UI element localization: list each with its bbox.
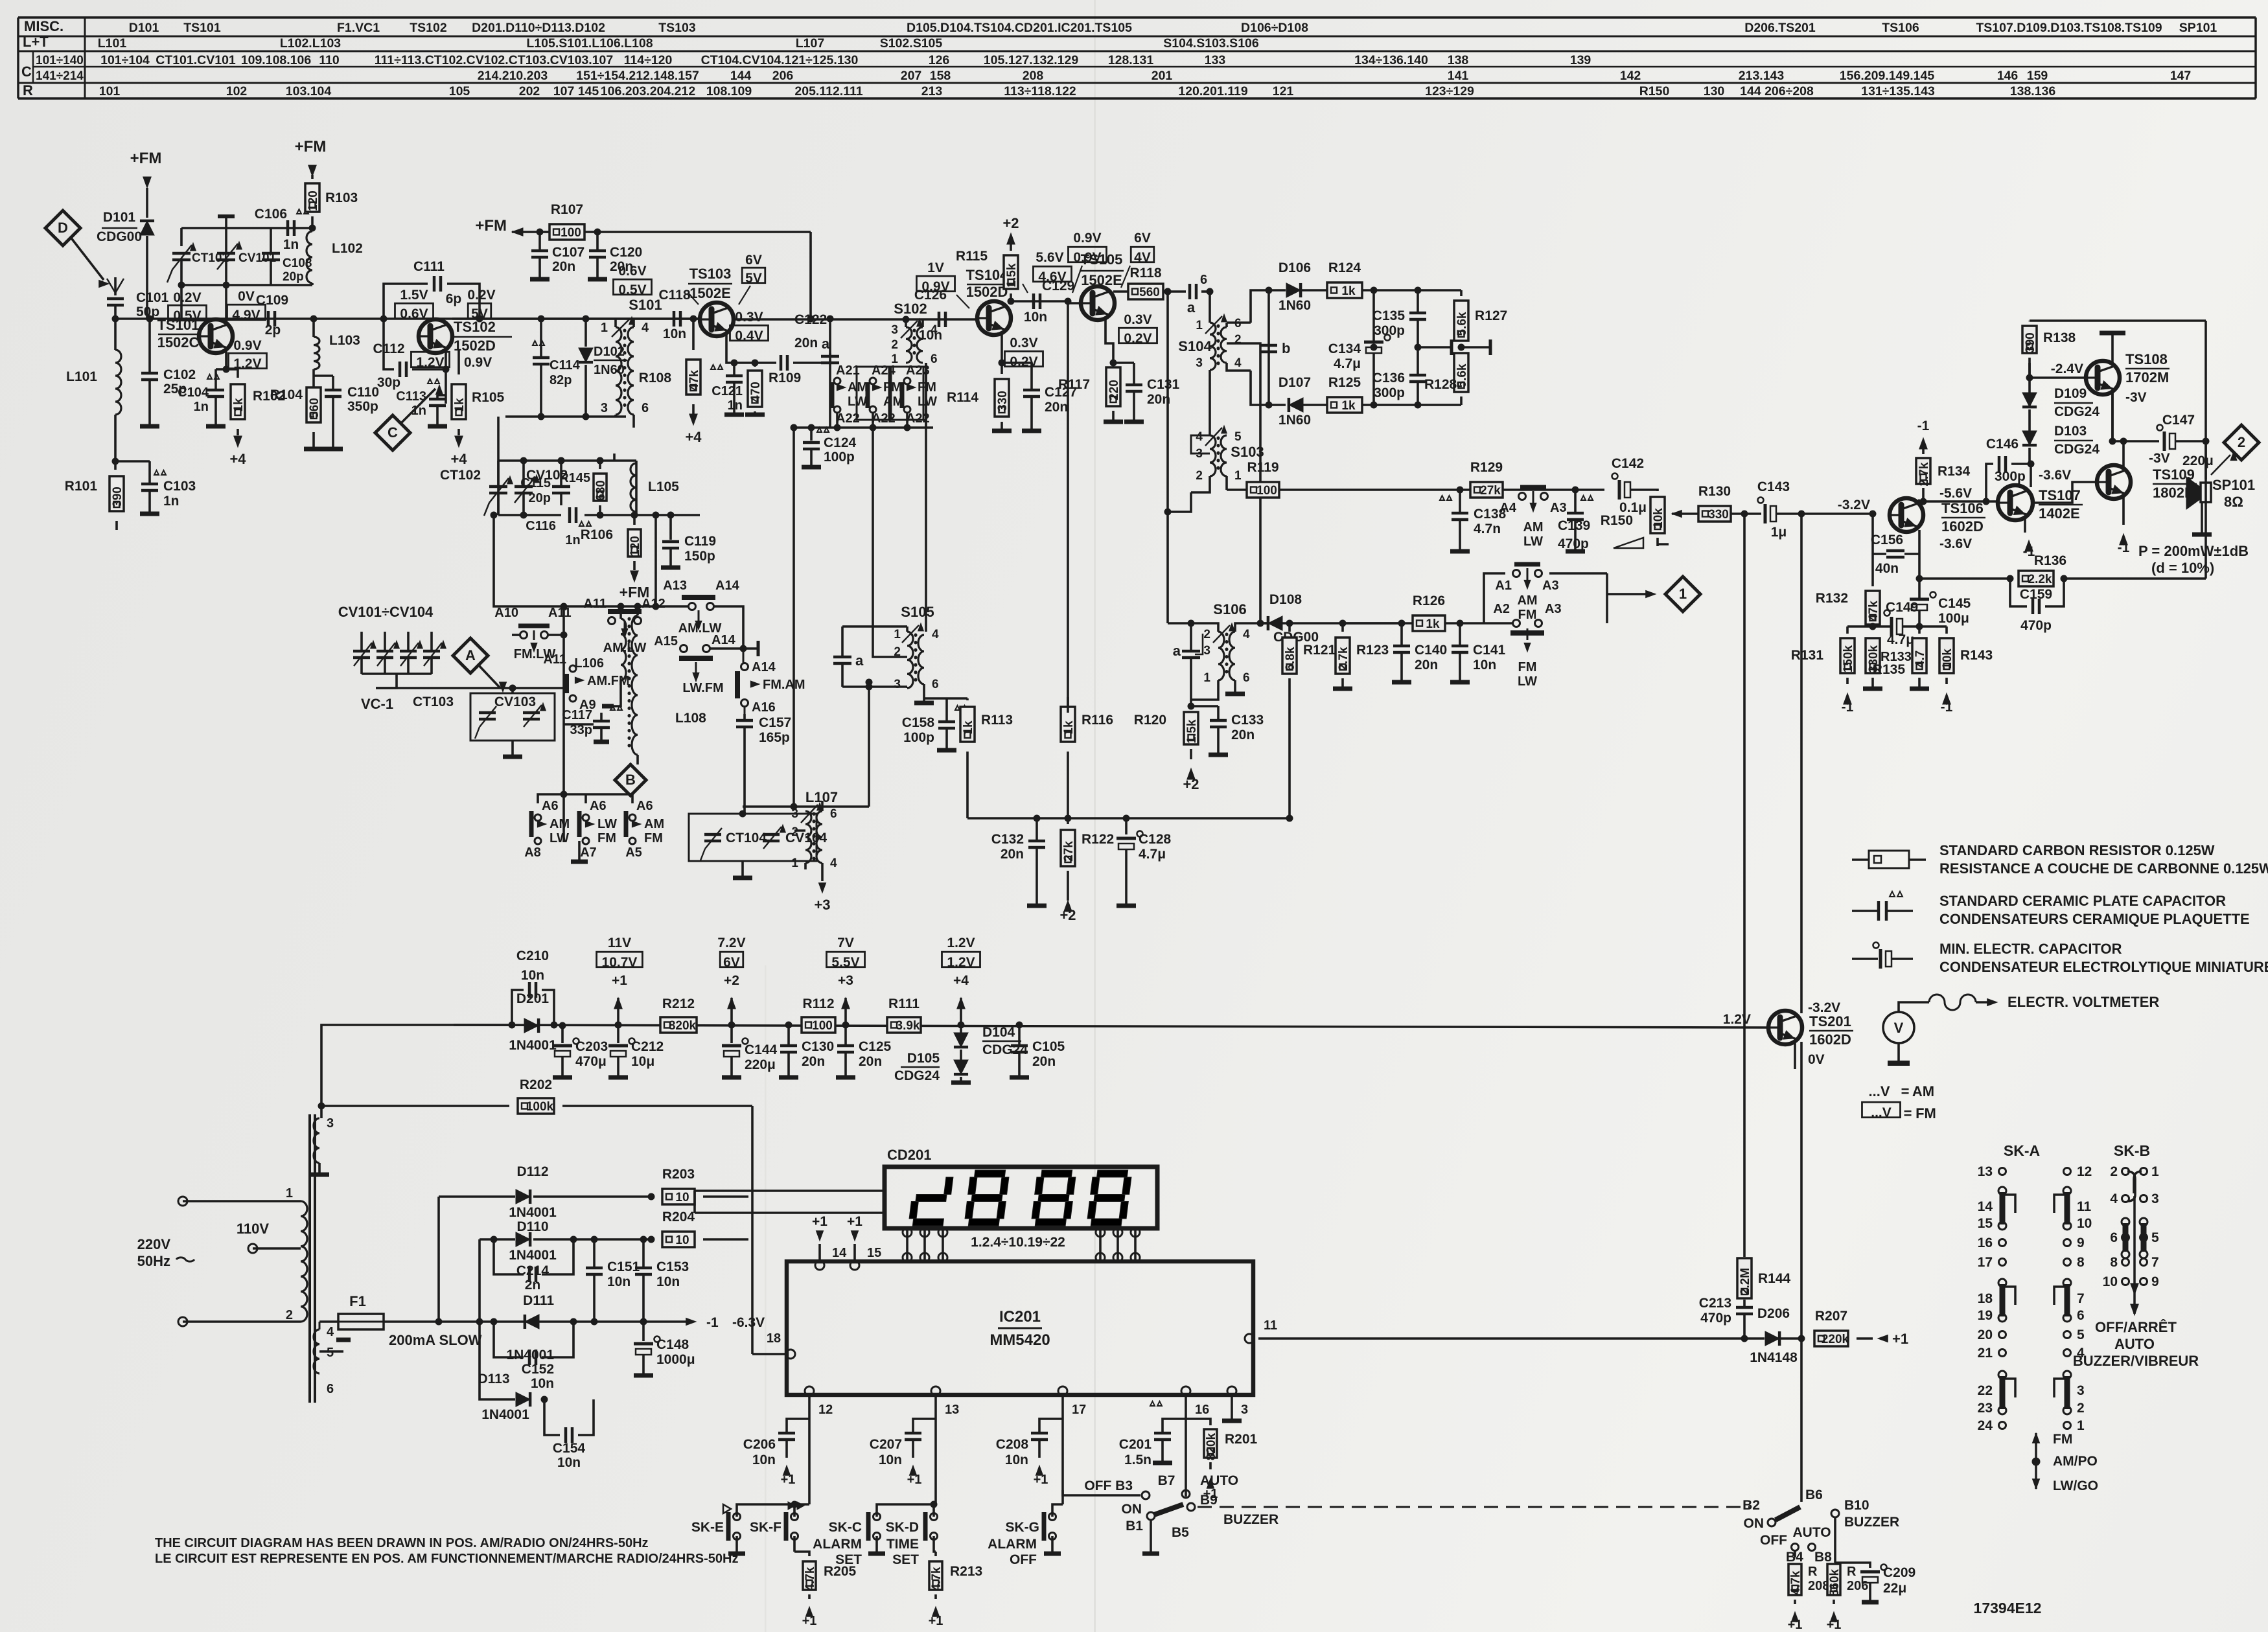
svg-text:5.6V: 5.6V bbox=[1036, 250, 1063, 265]
svg-text:15: 15 bbox=[1978, 1216, 1993, 1231]
svg-text:-5.6V: -5.6V bbox=[1939, 486, 1972, 501]
capacitor C140 20n bbox=[1392, 623, 1447, 682]
svg-text:120.201.119: 120.201.119 bbox=[1178, 84, 1248, 98]
capacitor a S102 bbox=[821, 316, 839, 363]
svg-text:2: 2 bbox=[2077, 1401, 2085, 1416]
capacitor C119 150p bbox=[636, 512, 716, 568]
svg-text:D206.TS201: D206.TS201 bbox=[1744, 21, 1816, 35]
svg-text:C207: C207 bbox=[870, 1437, 902, 1452]
svg-text:C: C bbox=[21, 63, 32, 80]
svg-text:D105: D105 bbox=[907, 1051, 940, 1066]
svg-text:1k: 1k bbox=[962, 720, 975, 735]
svg-text:680: 680 bbox=[594, 480, 608, 501]
wire TS105 emitter bbox=[1105, 319, 1113, 363]
transistor TS109 1802M bbox=[2097, 451, 2197, 501]
svg-text:7.2V: 7.2V bbox=[717, 936, 745, 950]
svg-text:390: 390 bbox=[111, 487, 124, 507]
svg-text:-1: -1 bbox=[1941, 700, 1953, 715]
resistor R134 2.7k bbox=[1916, 419, 1971, 501]
svg-text:R127: R127 bbox=[1475, 308, 1507, 323]
svg-text:12: 12 bbox=[818, 1403, 833, 1417]
resistor R118 560 bbox=[1113, 266, 1186, 299]
svg-text:L101: L101 bbox=[98, 36, 127, 51]
svg-text:R119: R119 bbox=[1247, 460, 1279, 475]
svg-text:1k: 1k bbox=[1341, 284, 1356, 298]
wire A6 tops bbox=[538, 688, 632, 803]
wire IF bottom rail bbox=[505, 413, 626, 420]
svg-text:VC-1: VC-1 bbox=[361, 696, 393, 712]
fuse F1 bbox=[319, 1293, 689, 1348]
wire osc box bbox=[498, 417, 636, 518]
transistor TS107 1402E bbox=[1998, 468, 2083, 522]
svg-text:A14: A14 bbox=[712, 633, 736, 647]
svg-text:L102: L102 bbox=[332, 241, 363, 256]
junction L101 R101 bbox=[112, 458, 119, 465]
svg-text:144 206÷208: 144 206÷208 bbox=[1740, 84, 1814, 98]
svg-text:SK-D: SK-D bbox=[886, 1520, 919, 1535]
wire rail to transformer bbox=[321, 1025, 512, 1118]
svg-text:151÷154.212.148.157: 151÷154.212.148.157 bbox=[576, 69, 699, 83]
svg-text:1k: 1k bbox=[232, 398, 246, 412]
diode D206 1N4148 bbox=[1744, 1306, 1801, 1365]
svg-text:15: 15 bbox=[867, 1246, 881, 1260]
potentiometer R150 10k bbox=[1601, 490, 1669, 548]
svg-text:C124: C124 bbox=[824, 435, 857, 450]
svg-text:131÷135.143: 131÷135.143 bbox=[1861, 84, 1935, 98]
svg-text:27k: 27k bbox=[1480, 484, 1501, 498]
svg-text:20: 20 bbox=[1978, 1327, 1993, 1342]
svg-text:R131: R131 bbox=[1791, 648, 1824, 663]
svg-text:19: 19 bbox=[1978, 1308, 1993, 1323]
svg-text:12: 12 bbox=[2077, 1164, 2092, 1179]
svg-text:C154: C154 bbox=[553, 1441, 586, 1456]
resistor R212 820k bbox=[660, 996, 697, 1033]
switch A4 A3 AM LW bbox=[1499, 487, 1566, 549]
svg-text:20n: 20n bbox=[1415, 658, 1438, 672]
capacitor C111 6p bbox=[380, 259, 483, 322]
svg-text:TIME: TIME bbox=[886, 1537, 919, 1552]
svg-text:BUZZER: BUZZER bbox=[1223, 1512, 1279, 1527]
svg-text:R123: R123 bbox=[1356, 643, 1389, 658]
svg-text:b: b bbox=[1282, 340, 1290, 356]
svg-text:A13: A13 bbox=[663, 579, 687, 593]
svg-text:4.7k: 4.7k bbox=[930, 1567, 943, 1591]
transistor TS104 bbox=[966, 267, 1011, 335]
svg-text:D111: D111 bbox=[523, 1293, 554, 1308]
capacitor C108 20p bbox=[262, 228, 312, 285]
svg-text:CONDENSATEURS CERAMIQUE PLAQ: CONDENSATEURS CERAMIQUE PLAQUETTE bbox=[1939, 911, 2250, 927]
SK-A link 14-15 bbox=[2000, 1192, 2006, 1224]
svg-text:B8: B8 bbox=[1814, 1550, 1832, 1565]
wire R127 tap bbox=[1458, 339, 1490, 355]
svg-text:4.9V: 4.9V bbox=[232, 308, 260, 323]
capacitor C106 1n bbox=[255, 207, 316, 252]
diode D111 1N4001 bbox=[525, 1304, 539, 1329]
svg-text:C105: C105 bbox=[1032, 1039, 1065, 1054]
svg-text:21: 21 bbox=[1978, 1346, 1993, 1361]
svg-text:22: 22 bbox=[1978, 1383, 1993, 1398]
svg-text:139: 139 bbox=[1570, 53, 1591, 67]
svg-text:R203: R203 bbox=[662, 1167, 695, 1182]
svg-text:C145: C145 bbox=[1938, 596, 1971, 611]
svg-text:R130: R130 bbox=[1698, 484, 1731, 499]
capacitor a S104 in bbox=[1187, 273, 1213, 316]
label 11V 10.7V bbox=[597, 936, 643, 988]
svg-text:0.2V: 0.2V bbox=[173, 290, 201, 305]
svg-text:1.2V: 1.2V bbox=[416, 355, 444, 370]
svg-text:150p: 150p bbox=[684, 549, 715, 564]
svg-text:20n: 20n bbox=[802, 1054, 825, 1069]
svg-text:10.7V: 10.7V bbox=[602, 955, 638, 970]
button SK-E bbox=[691, 1504, 809, 1554]
svg-text:+1: +1 bbox=[929, 1614, 943, 1628]
svg-text:SP101: SP101 bbox=[2212, 477, 2255, 493]
label 0.3V 0.4V bbox=[730, 310, 768, 343]
label 220V 50Hz bbox=[137, 1236, 194, 1269]
node +1 on rail bbox=[614, 998, 622, 1028]
svg-text:LW/GO: LW/GO bbox=[2053, 1478, 2098, 1493]
svg-text:L102.L103: L102.L103 bbox=[280, 36, 341, 51]
svg-text:1: 1 bbox=[1203, 671, 1210, 685]
diode D110 1N4001 bbox=[480, 1221, 651, 1247]
svg-text:L105: L105 bbox=[648, 479, 679, 494]
svg-text:7V: 7V bbox=[837, 936, 854, 950]
svg-text:+2: +2 bbox=[724, 973, 739, 988]
resistor R128 5.6k bbox=[1424, 347, 1469, 405]
svg-text:47k: 47k bbox=[688, 370, 701, 391]
resistor R133 330k bbox=[1863, 638, 1912, 689]
svg-text:4.7n: 4.7n bbox=[1474, 522, 1501, 536]
svg-text:470p: 470p bbox=[1700, 1311, 1731, 1326]
svg-text:33p: 33p bbox=[570, 723, 592, 737]
svg-text:C109: C109 bbox=[256, 293, 288, 308]
svg-text:+FM: +FM bbox=[130, 150, 162, 167]
svg-text:1: 1 bbox=[286, 1186, 293, 1201]
svg-text:A14: A14 bbox=[752, 660, 776, 674]
svg-text:8: 8 bbox=[2110, 1255, 2118, 1270]
svg-text:+4: +4 bbox=[229, 451, 246, 467]
svg-text:130: 130 bbox=[1704, 84, 1725, 98]
wire TS107 emitter bbox=[2023, 516, 2035, 559]
svg-text:C112: C112 bbox=[373, 341, 404, 356]
svg-text:159: 159 bbox=[2027, 69, 2048, 83]
capacitor C209 22u bbox=[1835, 1563, 1915, 1602]
svg-text:FM.AM: FM.AM bbox=[763, 678, 805, 692]
svg-text:R129: R129 bbox=[1470, 460, 1503, 475]
svg-text:144: 144 bbox=[730, 69, 752, 83]
capacitor C121 1n bbox=[711, 363, 744, 415]
svg-text:C133: C133 bbox=[1231, 713, 1264, 728]
resistor R203 10 bbox=[648, 1167, 748, 1204]
switch A6 LW FM A7 bbox=[571, 799, 617, 862]
resistor R115 1.5k bbox=[956, 215, 1019, 305]
legend resistor symbol bbox=[1852, 851, 1926, 868]
svg-text:C107: C107 bbox=[552, 245, 584, 260]
antenna bbox=[107, 277, 124, 295]
svg-text:AM: AM bbox=[550, 817, 570, 831]
svg-text:105.127.132.129: 105.127.132.129 bbox=[984, 53, 1079, 67]
varicap CV102 bbox=[515, 461, 568, 515]
resistor R138 390 bbox=[2022, 321, 2076, 378]
switch A23 FM LW A22 bbox=[891, 363, 937, 426]
svg-text:220μ: 220μ bbox=[745, 1057, 776, 1072]
label 0V 4.9V bbox=[227, 289, 265, 323]
svg-text:C159: C159 bbox=[2020, 587, 2052, 602]
switch B2 B6 bbox=[1742, 1488, 1823, 1531]
svg-text:10n: 10n bbox=[531, 1376, 554, 1391]
capacitor C156 40n bbox=[1871, 533, 1919, 576]
button SK-G ALARM OFF bbox=[988, 1504, 1063, 1567]
svg-text:A16: A16 bbox=[752, 700, 776, 715]
svg-text:AUTO: AUTO bbox=[2114, 1336, 2155, 1352]
svg-text:R: R bbox=[1847, 1565, 1857, 1579]
wire A11 junction bbox=[512, 603, 567, 688]
label 0.9V 0.9V TS105 bbox=[1068, 231, 1106, 293]
label D111 bbox=[506, 1293, 554, 1362]
svg-text:-1: -1 bbox=[1842, 700, 1854, 715]
svg-text:3: 3 bbox=[327, 1116, 334, 1131]
svg-text:1n: 1n bbox=[163, 494, 179, 509]
svg-text:6: 6 bbox=[931, 352, 938, 366]
svg-text:C113: C113 bbox=[396, 389, 426, 404]
svg-text:101: 101 bbox=[99, 84, 121, 98]
svg-text:R121: R121 bbox=[1303, 643, 1336, 658]
SK-A mode arrows bbox=[2032, 1432, 2098, 1493]
transistor TS102 bbox=[419, 319, 512, 354]
capacitor C212 10u bbox=[608, 1022, 664, 1077]
capacitor C158 100p bbox=[902, 698, 967, 750]
transformer L106 L108 bbox=[574, 603, 706, 788]
svg-text:TS107: TS107 bbox=[2039, 487, 2081, 503]
transistor TS201 1602D bbox=[1723, 1000, 1853, 1067]
diode D108 CDG00 bbox=[1268, 592, 1328, 645]
svg-text:1N4001: 1N4001 bbox=[481, 1407, 529, 1422]
svg-text:A8: A8 bbox=[524, 845, 541, 860]
legend V=FM bbox=[1862, 1102, 1936, 1121]
svg-text:OFF B3: OFF B3 bbox=[1084, 1478, 1133, 1493]
capacitor C145 100u bbox=[1910, 575, 1971, 630]
svg-text:-1: -1 bbox=[706, 1315, 719, 1330]
capacitor C107 20n bbox=[530, 229, 584, 279]
inductor L107 bbox=[791, 789, 838, 913]
svg-text:0V: 0V bbox=[238, 289, 255, 304]
svg-text:1602D: 1602D bbox=[1941, 518, 1984, 534]
svg-text:-3V: -3V bbox=[2125, 390, 2147, 405]
svg-text:TS201: TS201 bbox=[1809, 1013, 1851, 1029]
note circuit position bbox=[155, 1536, 738, 1566]
svg-text:C201: C201 bbox=[1119, 1437, 1152, 1452]
svg-text:4: 4 bbox=[2110, 1191, 2118, 1206]
svg-text:-1: -1 bbox=[2118, 540, 2130, 555]
svg-text:6: 6 bbox=[1200, 273, 1207, 287]
switch A13 A14 AM.LW bbox=[639, 579, 743, 649]
svg-text:10: 10 bbox=[2103, 1274, 2118, 1289]
svg-text:100: 100 bbox=[1256, 484, 1277, 498]
svg-text:B10: B10 bbox=[1844, 1498, 1869, 1513]
svg-text:2.7k: 2.7k bbox=[1917, 462, 1931, 486]
resistor R213 4.7k bbox=[929, 1552, 983, 1628]
svg-text:1N4001: 1N4001 bbox=[509, 1205, 557, 1220]
svg-text:1n: 1n bbox=[194, 400, 209, 414]
svg-text:C208: C208 bbox=[996, 1437, 1029, 1452]
wire R111 rail bbox=[454, 1025, 1768, 1028]
svg-text:16: 16 bbox=[1978, 1235, 1993, 1250]
svg-text:+3: +3 bbox=[814, 897, 830, 913]
wire TS109 collector bbox=[2109, 393, 2159, 468]
wire display to IC pins bbox=[903, 1228, 1140, 1262]
svg-text:10k: 10k bbox=[1652, 508, 1665, 529]
resistor R122 27k bbox=[1059, 818, 1114, 923]
svg-text:5.6k: 5.6k bbox=[1455, 363, 1469, 387]
svg-text:CDG24: CDG24 bbox=[2054, 404, 2100, 419]
svg-text:R115: R115 bbox=[956, 249, 988, 264]
svg-text:0.5V: 0.5V bbox=[173, 308, 201, 323]
wire L107 top rail bbox=[743, 679, 872, 807]
svg-text:9: 9 bbox=[2077, 1235, 2085, 1250]
capacitor C113 1n bbox=[396, 379, 447, 426]
svg-text:C147: C147 bbox=[2162, 413, 2195, 428]
resistor R113 1k bbox=[960, 698, 1013, 818]
svg-text:R213: R213 bbox=[950, 1564, 982, 1579]
capacitor C122 20n bbox=[781, 312, 830, 371]
svg-text:1: 1 bbox=[791, 856, 798, 870]
capacitor C102 25p bbox=[140, 316, 196, 426]
svg-text:R124: R124 bbox=[1328, 260, 1361, 275]
svg-text:-3.2V: -3.2V bbox=[1838, 498, 1870, 512]
svg-text:R207: R207 bbox=[1815, 1309, 1847, 1324]
resistor R144 2.2M bbox=[1737, 1258, 1791, 1306]
svg-text:-3V: -3V bbox=[2149, 451, 2170, 466]
svg-text:AM: AM bbox=[644, 817, 664, 831]
svg-text:3: 3 bbox=[2151, 1191, 2159, 1206]
capacitor C149 4.7u bbox=[1873, 600, 1919, 647]
label B7 AUTO bbox=[1158, 1473, 1239, 1498]
svg-text:C210: C210 bbox=[516, 948, 549, 963]
svg-text:A5: A5 bbox=[625, 845, 642, 860]
legend electrolytic capacitor symbol bbox=[1852, 943, 1913, 969]
capacitor C146 300p bbox=[1986, 437, 2034, 501]
svg-text:3: 3 bbox=[894, 678, 901, 691]
svg-text:AM/PO: AM/PO bbox=[2053, 1454, 2098, 1469]
svg-text:5: 5 bbox=[1234, 430, 1242, 444]
svg-text:300p: 300p bbox=[1374, 385, 1405, 400]
wire x2692 signal down bbox=[1743, 514, 1746, 1257]
svg-text:R144: R144 bbox=[1758, 1271, 1791, 1286]
switch B2 blade bbox=[1776, 1507, 1800, 1520]
resistor R104 560 bbox=[270, 387, 323, 449]
svg-text:0.3V: 0.3V bbox=[1010, 336, 1037, 351]
capacitor C116 1n bbox=[526, 507, 591, 547]
svg-text:R143: R143 bbox=[1960, 648, 1993, 663]
svg-text:1: 1 bbox=[1234, 469, 1242, 483]
svg-text:A3: A3 bbox=[1542, 579, 1559, 593]
svg-text:2n: 2n bbox=[525, 1278, 541, 1293]
svg-text:CDG24: CDG24 bbox=[894, 1068, 940, 1083]
svg-text:A11: A11 bbox=[543, 652, 566, 667]
svg-text:5V: 5V bbox=[745, 271, 762, 286]
svg-text:27k: 27k bbox=[1062, 841, 1076, 862]
SK-A link 22-23 bbox=[2000, 1376, 2006, 1409]
svg-text:L103: L103 bbox=[329, 333, 360, 348]
svg-text:1n: 1n bbox=[411, 404, 426, 418]
resistor R145 680 bbox=[559, 457, 608, 518]
svg-text:C146: C146 bbox=[1986, 437, 2019, 452]
svg-text:A15: A15 bbox=[654, 634, 678, 649]
label 0.2V 5V bbox=[467, 288, 495, 321]
capacitor C203 470u bbox=[553, 1022, 608, 1077]
svg-text:3: 3 bbox=[1203, 644, 1210, 658]
switch A6 AM FM A5 bbox=[625, 799, 664, 860]
resistor R114 330 bbox=[947, 363, 1012, 431]
svg-text:=: = bbox=[1901, 1083, 1910, 1099]
svg-text:1.2.4÷10.19÷22: 1.2.4÷10.19÷22 bbox=[971, 1235, 1065, 1250]
svg-text:2.7k: 2.7k bbox=[1337, 647, 1350, 671]
transistor TS105 bbox=[1065, 251, 1124, 320]
svg-text:AM: AM bbox=[1523, 520, 1543, 534]
svg-text:STANDARD CARBON RESISTOR 0.: STANDARD CARBON RESISTOR 0.125W bbox=[1939, 842, 2215, 858]
switch table SK-A bbox=[1978, 1142, 2092, 1433]
resistor R208 4.7k bbox=[1788, 1551, 1830, 1632]
wire TS104 collector bbox=[1010, 300, 1068, 303]
connector diamond B bbox=[615, 764, 646, 796]
svg-text:TS102: TS102 bbox=[454, 319, 496, 335]
svg-text:LW: LW bbox=[1518, 674, 1537, 689]
svg-text:560: 560 bbox=[1139, 286, 1160, 299]
svg-text:R132: R132 bbox=[1816, 591, 1848, 606]
wire S105 bottom join bbox=[924, 697, 967, 700]
wire TS109 emitter bbox=[2118, 497, 2130, 555]
svg-text:R114: R114 bbox=[947, 390, 978, 405]
svg-text:C134: C134 bbox=[1328, 341, 1361, 356]
svg-text:4: 4 bbox=[642, 321, 649, 335]
svg-text:TS108: TS108 bbox=[2125, 351, 2168, 367]
resistor R130 330 bbox=[1672, 484, 1761, 522]
svg-text:R117: R117 bbox=[1058, 377, 1090, 392]
svg-text:C139: C139 bbox=[1558, 518, 1590, 533]
svg-text:FM: FM bbox=[2053, 1432, 2072, 1447]
svg-text:14: 14 bbox=[1978, 1199, 1993, 1214]
svg-text:D: D bbox=[58, 220, 68, 236]
label 1.2V 0.9V bbox=[411, 352, 492, 370]
svg-text:10n: 10n bbox=[607, 1274, 631, 1289]
transformer S103 bbox=[1191, 376, 1264, 492]
svg-text:B7: B7 bbox=[1158, 1473, 1175, 1488]
svg-text:220k: 220k bbox=[1822, 1333, 1849, 1346]
svg-text:560: 560 bbox=[308, 398, 321, 419]
svg-text:OFF: OFF bbox=[1760, 1533, 1787, 1548]
svg-text:2: 2 bbox=[1196, 469, 1203, 483]
svg-text:C122: C122 bbox=[794, 312, 827, 327]
svg-text:OFF: OFF bbox=[1010, 1552, 1037, 1567]
svg-text:10: 10 bbox=[2077, 1216, 2092, 1231]
svg-text:SET: SET bbox=[892, 1552, 919, 1567]
wire top audio rail bbox=[2030, 321, 2206, 479]
label OFF B4 bbox=[1760, 1533, 1803, 1565]
wire TS109 base bbox=[2033, 482, 2097, 503]
svg-text:C144: C144 bbox=[745, 1042, 778, 1057]
resistor R136 2.2k bbox=[1919, 441, 2206, 586]
svg-text:390: 390 bbox=[2024, 332, 2037, 353]
svg-text:L107: L107 bbox=[796, 36, 824, 51]
capacitor C208 10n bbox=[996, 1396, 1063, 1504]
pin 11 bbox=[1245, 1318, 1277, 1343]
svg-text:100μ: 100μ bbox=[1938, 611, 1969, 626]
svg-text:213: 213 bbox=[921, 84, 943, 98]
SK-A link 18-19 bbox=[2000, 1284, 2006, 1316]
wire TS108 emitter bbox=[2111, 393, 2114, 441]
transformer T1 core bbox=[310, 1114, 315, 1403]
capacitor C141 10n bbox=[1450, 620, 1506, 682]
